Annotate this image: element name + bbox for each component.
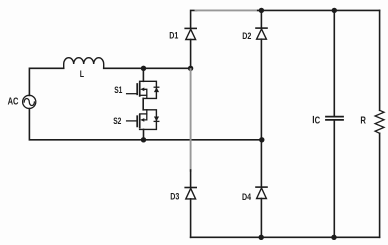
diode D1 (185, 28, 196, 39)
diode D3 (185, 188, 196, 199)
wire: S1 drain lead from node A (142, 68, 144, 81)
svg-text:D1: D1 (169, 30, 178, 41)
wire: D3 cathode... anode lead down to bottom bus (190, 199, 192, 237)
svg-text:D4: D4 (242, 191, 251, 202)
resistor R (375, 110, 384, 133)
wire: top bus black corner above D1 (191, 10, 197, 28)
wire: S2 drain lead down to neutral wire (143, 129, 145, 139)
transistor S1 (NMOS with body diode, drain up) (127, 81, 160, 98)
diode D2 (256, 28, 267, 39)
node: junction dot top bus above C (332, 8, 337, 13)
svg-text:C: C (315, 115, 321, 126)
wire: gray segment of left bridge leg below mid node (190, 69, 192, 171)
inductor L (64, 58, 104, 69)
label C (313, 115, 321, 126)
transistor S2 (NMOS with body diode, mirrored, drain down) (127, 110, 160, 130)
svg-text:AC: AC (8, 95, 19, 106)
wire: right bridge leg mid section D2 anode to D4 cathode (260, 39, 262, 187)
wire: resistor branch upper lead (379, 10, 381, 110)
wire: top bus gray segment D1 to D2 (196, 9, 259, 11)
diode D4 (256, 187, 267, 198)
wire: D1 anode lead down to mid node (190, 40, 192, 69)
wire: top bus black segment D2 to R (258, 9, 380, 11)
svg-text:S2: S2 (113, 116, 122, 126)
wire: capacitor branch upper lead (333, 10, 335, 116)
node: junction dot at top of switch branch (141, 66, 146, 71)
node: junction dot at bottom of switch branch (141, 137, 146, 142)
node: junction dot neutral wire to right bridge leg (259, 137, 264, 142)
wire: black lead into D3 (190, 170, 192, 187)
svg-text:D3: D3 (170, 190, 179, 201)
wire: D4 anode lead down to bottom bus (260, 199, 262, 238)
svg-text:R: R (360, 115, 366, 126)
wire: left loop lower vertical and neutral bottom wire to right bridge leg (29, 109, 261, 140)
node: junction dot bottom bus below C (331, 235, 336, 240)
svg-text:S1: S1 (114, 85, 123, 95)
node: junction dot left bridge mid-point (188, 66, 193, 71)
svg-text:L: L (80, 68, 84, 79)
node: junction dot bottom bus below D4 (259, 235, 264, 240)
capacitor C (326, 117, 343, 120)
AC source V1 (circle with sine) (23, 95, 36, 108)
wire: bottom bus (191, 236, 380, 238)
wire: right bridge leg top lead into D2 (260, 10, 262, 28)
wire: left loop upper vertical from AC source to top-left corner (29, 68, 63, 95)
svg-text:D2: D2 (242, 30, 251, 41)
wire: from inductor to left bridge leg node (104, 67, 191, 69)
wire: capacitor branch lower lead (333, 121, 335, 238)
wire: resistor branch lower lead (379, 133, 381, 237)
wire: common-source link between S1 and S2 (142, 98, 144, 109)
node: junction dot top bus above D2 (259, 8, 264, 13)
